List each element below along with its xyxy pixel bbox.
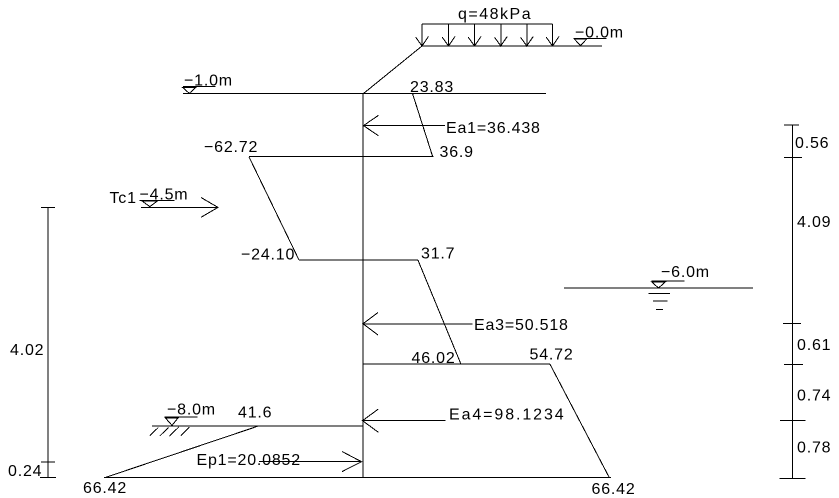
- svg-text:36.9: 36.9: [440, 144, 474, 161]
- svg-text:0.78: 0.78: [797, 440, 831, 457]
- surcharge load arrow 5: [521, 24, 534, 46]
- svg-text:Ea4=98.1234: Ea4=98.1234: [449, 407, 566, 424]
- left dim tick middle: [41, 461, 55, 463]
- svg-text:−24.10: −24.10: [241, 247, 295, 264]
- left dimension line: [47, 208, 49, 478]
- right dim tick 1: [784, 124, 799, 126]
- arrow Ep1: [259, 452, 362, 472]
- svg-text:4.02: 4.02: [10, 342, 44, 359]
- surcharge load arrow 4: [495, 24, 508, 46]
- layer line at -24.10 / 31.7 level: [299, 259, 418, 261]
- left pressure slant -62.72 to -24.10: [249, 157, 299, 260]
- water symbol dash 1: [649, 293, 671, 295]
- svg-text:0.61: 0.61: [797, 337, 831, 354]
- svg-text:0.56: 0.56: [795, 135, 829, 152]
- svg-text:−8.0m: −8.0m: [167, 402, 216, 419]
- svg-text:−62.72: −62.72: [204, 139, 258, 156]
- layer line at 36.9 / -62.72 level: [249, 156, 434, 158]
- svg-text:66.42: 66.42: [592, 481, 636, 498]
- level marker -4.5m: [140, 186, 189, 206]
- svg-text:66.42: 66.42: [83, 480, 127, 497]
- arrow Tc1: [141, 198, 218, 218]
- right dim tick 6: [780, 477, 806, 479]
- retaining wall: [362, 94, 364, 478]
- bottom base line: [104, 477, 611, 479]
- svg-text:41.6: 41.6: [238, 404, 272, 421]
- hatch slash 2: [160, 428, 169, 436]
- ground surface line 0.0m: [421, 45, 602, 47]
- water symbol dash 2: [653, 300, 667, 302]
- surcharge load arrow 2: [442, 24, 455, 46]
- level marker -6.0m: [652, 264, 710, 288]
- svg-text:0.24: 0.24: [8, 463, 42, 480]
- svg-text:Ea3=50.518: Ea3=50.518: [474, 317, 569, 334]
- right dim tick 5: [780, 419, 806, 421]
- right dimension line: [791, 125, 793, 478]
- svg-text:0.74: 0.74: [797, 388, 831, 405]
- right dim tick 4: [784, 363, 803, 365]
- svg-text:Tc1: Tc1: [110, 190, 137, 207]
- svg-text:31.7: 31.7: [421, 246, 455, 263]
- svg-text:23.83: 23.83: [410, 79, 454, 96]
- water symbol dash 3: [656, 309, 663, 311]
- svg-text:Ep1=20.0852: Ep1=20.0852: [197, 452, 301, 469]
- level marker -1.0m: [183, 72, 233, 93]
- svg-text:q=48kPa: q=48kPa: [458, 6, 532, 23]
- svg-text:−6.0m: −6.0m: [661, 264, 710, 281]
- slope line from load edge to wall top: [364, 46, 423, 94]
- excavation line at -8.0m: [152, 425, 363, 427]
- left dim tick top: [41, 207, 55, 209]
- arrow Ea3: [363, 313, 473, 336]
- surcharge load q top bar: [422, 23, 553, 25]
- hatch slash 1: [150, 428, 159, 436]
- water line -6.0m: [564, 287, 753, 289]
- right dim tick 3: [783, 322, 801, 324]
- surcharge load arrow 6: [546, 24, 559, 46]
- arrow Ea4: [363, 409, 446, 432]
- hatch slash 3: [170, 427, 180, 436]
- level marker -8.0m: [165, 402, 216, 426]
- right dim tick 2: [784, 156, 802, 158]
- svg-text:54.72: 54.72: [530, 347, 574, 364]
- left dim tick bottom: [40, 477, 56, 479]
- pressure slant 23.83 to 36.9: [413, 94, 433, 157]
- arrow Ea1: [364, 115, 446, 136]
- ground line at -1.0m through wall top: [183, 93, 546, 95]
- surcharge load arrow 1: [416, 24, 429, 46]
- pressure slant 54.72 to 66.42: [550, 364, 609, 477]
- hatch slash 4: [181, 427, 190, 436]
- level marker 0.0m: [574, 24, 624, 45]
- svg-text:Ea1=36.438: Ea1=36.438: [446, 120, 541, 137]
- passive pressure slant Ep1: [105, 426, 258, 477]
- surcharge load arrow 3: [468, 24, 481, 46]
- svg-text:4.09: 4.09: [797, 214, 831, 231]
- pressure slant 31.7 to 46.02: [418, 260, 461, 364]
- layer line at 46.02 / 54.72 level: [363, 363, 550, 365]
